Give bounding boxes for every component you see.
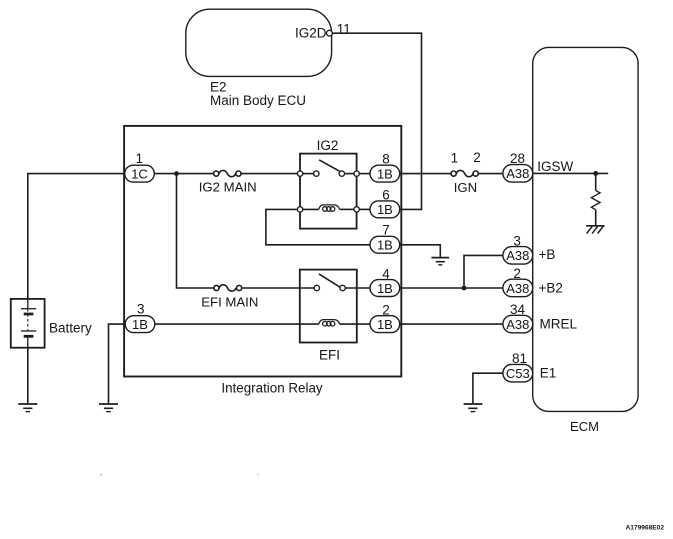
ground pin7 <box>431 258 449 265</box>
svg-text:A38: A38 <box>506 281 529 296</box>
relay EFI box <box>300 270 357 343</box>
svg-text:IGSW: IGSW <box>537 159 573 174</box>
connector A38 pin 3 <box>503 233 533 264</box>
connector A38 pin 28 <box>503 151 533 182</box>
node junction after 1C <box>174 171 179 176</box>
wire IGSW internal <box>533 172 609 174</box>
ground battery <box>18 404 37 412</box>
connector C53 pin 81 <box>503 351 533 382</box>
svg-text:8: 8 <box>382 151 390 166</box>
ground relay 1B3 <box>99 404 118 412</box>
ground E1 <box>464 404 483 412</box>
svg-text:2: 2 <box>473 150 481 165</box>
connector 1B pin 4 <box>370 266 400 296</box>
svg-text:EFI: EFI <box>319 347 340 362</box>
wire IG2D pin11 to IG2 relay coil pin 6 <box>332 33 421 209</box>
connector A38 pin 34 <box>503 302 533 333</box>
battery <box>11 299 92 348</box>
speck noise right <box>257 474 258 475</box>
coil terminal circles IG2 <box>297 207 302 212</box>
connector A38 pin 2 <box>503 266 533 297</box>
svg-text:7: 7 <box>382 222 390 237</box>
wire IG2 switch contacts <box>303 173 314 175</box>
node +B branch junction <box>462 286 467 291</box>
relay IG2 box <box>300 154 357 229</box>
wire pin 7 to ground <box>400 245 441 257</box>
wire 1B pin 3 to ground <box>109 324 126 403</box>
coil IG2 <box>319 205 340 211</box>
svg-text:IGN: IGN <box>454 180 477 195</box>
fuse IGN <box>451 150 481 195</box>
svg-text:MREL: MREL <box>540 317 578 332</box>
svg-text:1B: 1B <box>377 238 393 253</box>
svg-text:A38: A38 <box>506 248 529 263</box>
wire junction down to EFI MAIN fuse <box>177 174 214 288</box>
speck noise left <box>100 474 102 476</box>
svg-text:A38: A38 <box>506 317 529 332</box>
fuse EFI MAIN <box>201 285 258 310</box>
wire IG2 coil row <box>303 208 319 210</box>
svg-text:11: 11 <box>337 22 351 37</box>
wire IG2 MAIN fuse to IG2 relay <box>241 173 298 175</box>
svg-text:EFI MAIN: EFI MAIN <box>201 295 258 310</box>
wire IGN fuse to A38 pin 28 <box>478 173 503 175</box>
coil EFI <box>319 320 340 326</box>
svg-text:1: 1 <box>136 151 144 166</box>
wire E1 to ground <box>473 373 503 403</box>
svg-text:+B: +B <box>539 247 556 262</box>
switch contact circles IG2 <box>297 171 302 176</box>
wire battery to ground <box>27 348 29 404</box>
connector 1B pin 3 (battery input) <box>125 302 155 333</box>
pin circle IG2D <box>327 30 333 36</box>
svg-text:C53: C53 <box>506 366 530 381</box>
svg-text:1B: 1B <box>377 281 393 296</box>
svg-text:1B: 1B <box>377 202 393 217</box>
wire +B branch <box>464 255 503 288</box>
svg-text:A179968E02: A179968E02 <box>626 525 665 532</box>
svg-text:IG2: IG2 <box>317 138 339 153</box>
svg-text:Main Body ECU: Main Body ECU <box>210 93 306 108</box>
wire pin 4 to A38 pin 2 (+B2) <box>400 287 503 289</box>
svg-text:Battery: Battery <box>49 321 92 336</box>
connector 1B pin 7 <box>370 222 400 253</box>
svg-text:1B: 1B <box>377 317 393 332</box>
ground ECM internal (hatched) <box>586 226 605 234</box>
svg-text:Integration Relay: Integration Relay <box>221 381 323 396</box>
svg-text:IG2D: IG2D <box>295 26 327 41</box>
switch contact circles EFI <box>314 285 319 290</box>
wire EFI switch to pin 4 <box>345 287 370 289</box>
switch blade EFI <box>319 274 340 287</box>
connector 1B pin 8 <box>370 151 400 182</box>
wire pin 2 to A38 pin 34 (MREL) <box>400 323 503 325</box>
svg-text:E1: E1 <box>540 366 557 381</box>
wire pin 8 to IGN fuse <box>400 173 451 175</box>
ECM box <box>533 47 638 411</box>
wire EFI coil row (1B pin3 to 1B pin2) <box>155 323 319 325</box>
fuse IG2 MAIN <box>199 170 257 194</box>
svg-text:A38: A38 <box>506 166 529 181</box>
connector 1B pin 6 <box>370 188 400 218</box>
svg-text:1: 1 <box>451 151 459 166</box>
wire EFI MAIN fuse to EFI relay switch <box>242 287 314 289</box>
resistor IGSW pull-down <box>591 173 600 225</box>
svg-text:ECM: ECM <box>570 419 599 434</box>
switch blade IG2 <box>319 160 339 171</box>
svg-text:1B: 1B <box>132 317 148 332</box>
Main Body ECU box E2 <box>186 9 332 76</box>
svg-text:+B2: +B2 <box>539 281 563 296</box>
node IGSW resistor junction <box>593 171 598 176</box>
connector 1C pin 1 <box>125 151 155 182</box>
svg-text:3: 3 <box>137 302 145 317</box>
wire IG2 coil to pin 6 <box>359 208 370 210</box>
wire IG2 switch to pin 8 <box>359 173 370 175</box>
svg-text:1B: 1B <box>377 166 393 181</box>
wire 1C to IG2 MAIN fuse <box>154 173 214 175</box>
svg-text:1C: 1C <box>131 166 148 181</box>
Integration Relay box <box>124 126 401 377</box>
wire battery feed top (1C to battery) <box>28 174 125 300</box>
connector 1B pin 2 <box>370 302 400 332</box>
wire IG2 coil left to pin 7 <box>266 209 370 244</box>
svg-text:IG2 MAIN: IG2 MAIN <box>199 179 257 194</box>
